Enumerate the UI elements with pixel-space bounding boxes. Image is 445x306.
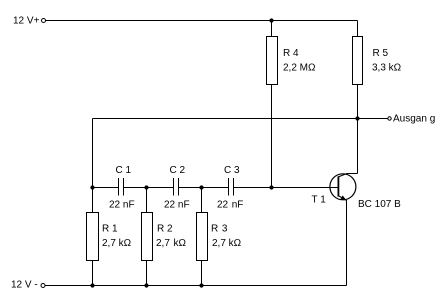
wire R5 bottom lead to collector [357,85,359,174]
transistor T1 collector lead [339,174,358,177]
label R4 value [283,63,316,74]
wire capacitor line segment 3 [179,187,229,189]
label R2 value [156,238,187,249]
svg-text:2,2 MΩ: 2,2 MΩ [283,63,316,74]
svg-text:Ausgan g: Ausgan g [393,114,435,125]
wire left feedback vertical [92,119,94,188]
wire R2 top lead [146,188,148,213]
transistor T1 emitter arrow [340,195,346,200]
wire R3 bottom lead [201,261,203,286]
svg-text:2,7 kΩ: 2,7 kΩ [212,238,242,249]
svg-text:3,3 kΩ: 3,3 kΩ [372,63,402,74]
capacitor C1 plates [119,178,124,196]
svg-text:R 4: R 4 [283,48,299,59]
label R1 designator [102,224,118,235]
junction bottom rail / R3 [199,283,203,287]
junction cap line / R3 [199,185,203,189]
label C2 designator [170,165,186,176]
resistor R2 body [142,213,153,261]
svg-text:R 3: R 3 [211,224,228,235]
label T1 designator [312,195,327,206]
label 12 V- [11,280,38,291]
terminal 12 V+ [42,19,46,23]
terminal Ausgang [388,117,391,120]
wire R1 bottom lead [92,261,94,286]
svg-text:22 nF: 22 nF [109,200,135,211]
wire R2 bottom lead [146,261,148,286]
label T1 type [358,199,401,210]
label C1 value [109,200,135,211]
svg-text:C 1: C 1 [116,165,132,176]
wire capacitor line segment 2 [124,187,174,189]
junction bottom rail / R2 [144,283,148,287]
wire capacitor line segment 1 [93,187,119,189]
label R1 value [102,238,132,249]
svg-text:12 V -: 12 V - [11,280,38,291]
svg-text:2,7 kΩ: 2,7 kΩ [102,238,132,249]
label Ausgang [393,114,435,125]
svg-text:R 5: R 5 [373,48,389,59]
wire R1 top lead [92,188,94,213]
capacitor C3 plates [229,178,234,196]
svg-text:12 V+: 12 V+ [13,16,40,27]
label R3 designator [211,224,228,235]
svg-text:C 2: C 2 [170,165,186,176]
junction Ausgang / collector [355,116,359,120]
wire Ausgang output line [93,118,389,120]
svg-text:R 1: R 1 [102,224,118,235]
svg-text:BC 107 B: BC 107 B [358,199,401,210]
resistor R5 body [353,37,363,85]
transistor T1 emitter lead [339,196,346,200]
label C2 value [164,200,190,211]
label R3 value [212,238,242,249]
label R4 designator [283,48,299,59]
wire emitter vertical [346,200,348,286]
transistor T1 base bar [337,176,339,196]
wire bottom supply rail [45,285,347,287]
label C1 designator [116,165,132,176]
svg-text:R 2: R 2 [157,224,173,235]
transistor T1 circle [330,174,356,200]
wire R5 top drop [357,21,359,37]
label R2 designator [157,224,173,235]
wire R4 top drop [271,21,273,37]
label C3 value [217,200,243,211]
resistor R1 body [87,213,99,261]
resistor R4 body [267,37,278,85]
label R5 value [372,63,402,74]
junction cap line / feedback [90,185,94,189]
wire base line segment [234,187,339,189]
wire top supply rail [46,20,358,22]
svg-text:T 1: T 1 [312,195,327,206]
svg-text:C 3: C 3 [224,165,240,176]
resistor R3 body [197,213,208,261]
label C3 designator [224,165,240,176]
terminal 12 V- [41,284,45,288]
capacitor C2 plates [174,178,179,196]
svg-text:22 nF: 22 nF [164,200,190,211]
junction cap line / R2 [144,185,148,189]
svg-text:2,7 kΩ: 2,7 kΩ [156,238,187,249]
wire R3 top lead [201,188,203,213]
svg-text:22 nF: 22 nF [217,200,243,211]
label R5 designator [373,48,389,59]
junction top rail / R4 [269,18,273,22]
label 12 V+ [13,16,40,27]
junction base line / R4 [269,185,273,189]
wire R4 bottom lead to base line [271,85,273,188]
junction bottom rail / R1 [90,283,94,287]
